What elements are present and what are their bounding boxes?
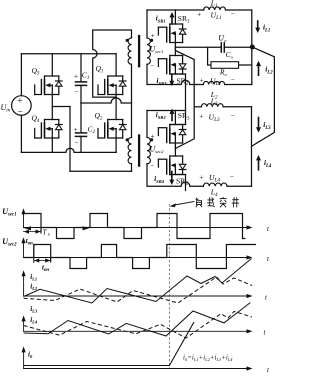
svg-text:+: + bbox=[199, 174, 203, 182]
wire SR3 drain to top line bbox=[174, 111, 176, 125]
label i0 axis arrow bbox=[23, 350, 25, 369]
svg-text:−: − bbox=[150, 162, 154, 170]
wire output diagonal to right bus bbox=[252, 47, 275, 146]
svg-text:+: + bbox=[197, 10, 201, 18]
wire output top line to L1 bbox=[147, 9, 204, 11]
wire T2 primary bottom bbox=[131, 164, 133, 172]
load step dashed line bbox=[168, 204, 170, 369]
wire T1 primary bottom to node B and T2 primary bbox=[131, 64, 133, 137]
i0 axis bbox=[24, 368, 249, 370]
svg-text:+: + bbox=[17, 96, 22, 106]
Usec1 axis bbox=[24, 227, 250, 229]
svg-text:−: − bbox=[231, 10, 235, 18]
capacitor C1 bbox=[80, 54, 82, 82]
wire L1 to output node bbox=[251, 10, 253, 47]
T1 secondary dot bbox=[150, 39, 153, 42]
wire L3 to mid node bbox=[251, 107, 253, 147]
svg-text:+: + bbox=[199, 112, 203, 120]
svg-text:−: − bbox=[230, 173, 234, 181]
transformer T1 primary winding bbox=[128, 38, 131, 64]
capacitor C2 bbox=[80, 103, 82, 133]
wire top rail bbox=[21, 53, 116, 55]
Usec2 axis bbox=[24, 257, 250, 259]
wire T1 secondary bottom to L2 line with hop bbox=[147, 64, 203, 84]
T2 primary dot bbox=[126, 138, 129, 141]
synchronous rectifier SR1 bbox=[169, 28, 171, 32]
Usec2 waveform bbox=[24, 245, 257, 269]
svg-text:−: − bbox=[231, 76, 235, 84]
wire SR3/SR4 midpoint diagonal to junction bbox=[175, 107, 194, 149]
iL2 waveform dashed bbox=[24, 277, 252, 303]
wire SR2 source bus down to SR3 bbox=[170, 73, 186, 75]
wire SR3 drain bus from SR2 bbox=[170, 124, 186, 126]
svg-text:−: − bbox=[231, 112, 235, 120]
transformer T2 primary winding bbox=[128, 137, 131, 163]
svg-text:−: − bbox=[75, 139, 79, 147]
synchronous rectifier SR4 bbox=[169, 160, 171, 164]
wire T2 secondary bottom to L4 line with hop bbox=[147, 164, 203, 186]
i0 waveform bbox=[24, 322, 194, 366]
inductor L1 bbox=[204, 7, 226, 10]
wire SR1/SR2 midbus bbox=[174, 43, 176, 56]
synchronous rectifier SR2 bbox=[169, 59, 171, 63]
current label iL1 with arrow bbox=[257, 21, 259, 28]
wire L2 to output node bbox=[251, 47, 253, 85]
wire Q3 drain to rail bbox=[51, 54, 53, 76]
svg-text:−: − bbox=[18, 108, 23, 118]
wire SR1/SR2 midpoint diagonal to L2/L3 junction bbox=[175, 46, 194, 107]
svg-text:s: s bbox=[48, 233, 50, 238]
wire SR3/SR4 midbus bbox=[174, 143, 176, 156]
T1 secondary winding bbox=[147, 38, 150, 64]
wire Q1 drain from top rail bbox=[115, 54, 117, 76]
wire T2 secondary top line bbox=[146, 111, 148, 138]
current label iL2 with arrow bbox=[258, 66, 260, 75]
wire T1 secondary top to L1 line bbox=[146, 10, 148, 38]
wire node B to transformers bbox=[81, 98, 132, 103]
svg-text:+: + bbox=[74, 73, 78, 81]
synchronous rectifier SR3 bbox=[169, 128, 171, 132]
T2 secondary dot bbox=[150, 138, 153, 141]
T1 primary dot bbox=[126, 39, 129, 42]
iL1/iL2 axis bbox=[24, 295, 249, 297]
wire T1 primary top to node C bbox=[93, 30, 132, 97]
resistor Ro bbox=[208, 47, 211, 65]
iL3/iL4 axis bbox=[24, 330, 249, 332]
svg-text:+: + bbox=[151, 32, 155, 40]
iL3 waveform solid bbox=[24, 303, 251, 336]
current label iL3 with arrow bbox=[258, 118, 260, 128]
svg-text:−: − bbox=[75, 88, 79, 96]
wire SR1 drain to top line bbox=[174, 10, 176, 24]
input source Uin bbox=[12, 96, 32, 116]
output node dot bbox=[250, 45, 255, 50]
wire Q4 source to bottom rail bbox=[51, 138, 53, 152]
wire bottom rail with hop bbox=[21, 148, 116, 152]
wire left rail bbox=[20, 54, 22, 96]
inductor L2 bbox=[203, 81, 224, 84]
label 负载突升 (load step) with pointer arrow bbox=[173, 202, 194, 206]
wire Q2 source down-left to bottom rail bbox=[115, 138, 117, 152]
ton measurement arrow row2 bbox=[34, 260, 51, 262]
Usec1 waveform bbox=[24, 214, 246, 239]
wire Q3 source to node A bbox=[51, 95, 53, 120]
svg-text:+: + bbox=[74, 126, 78, 134]
inductor L3 bbox=[194, 106, 201, 108]
T1 core bbox=[138, 36, 140, 66]
iL1 waveform solid bbox=[24, 259, 252, 304]
ton measurement arrow row1 bbox=[24, 231, 42, 233]
inductor L4 bbox=[203, 183, 227, 186]
svg-text:+: + bbox=[151, 132, 155, 140]
node A wire to T2 primary bbox=[52, 106, 70, 108]
iL4 waveform dashed bbox=[24, 311, 252, 338]
svg-text:+: + bbox=[200, 76, 204, 84]
wire Q1 source to node C bbox=[115, 95, 117, 120]
svg-text:−: − bbox=[150, 62, 154, 70]
current label iL4 with arrow bbox=[258, 160, 260, 169]
Ts measurement arrows bbox=[25, 226, 32, 230]
wire SR4 source bus bbox=[170, 174, 186, 176]
wire L4 to mid node bbox=[251, 146, 253, 186]
T2 secondary winding bbox=[147, 137, 150, 163]
T2 core bbox=[138, 136, 140, 166]
